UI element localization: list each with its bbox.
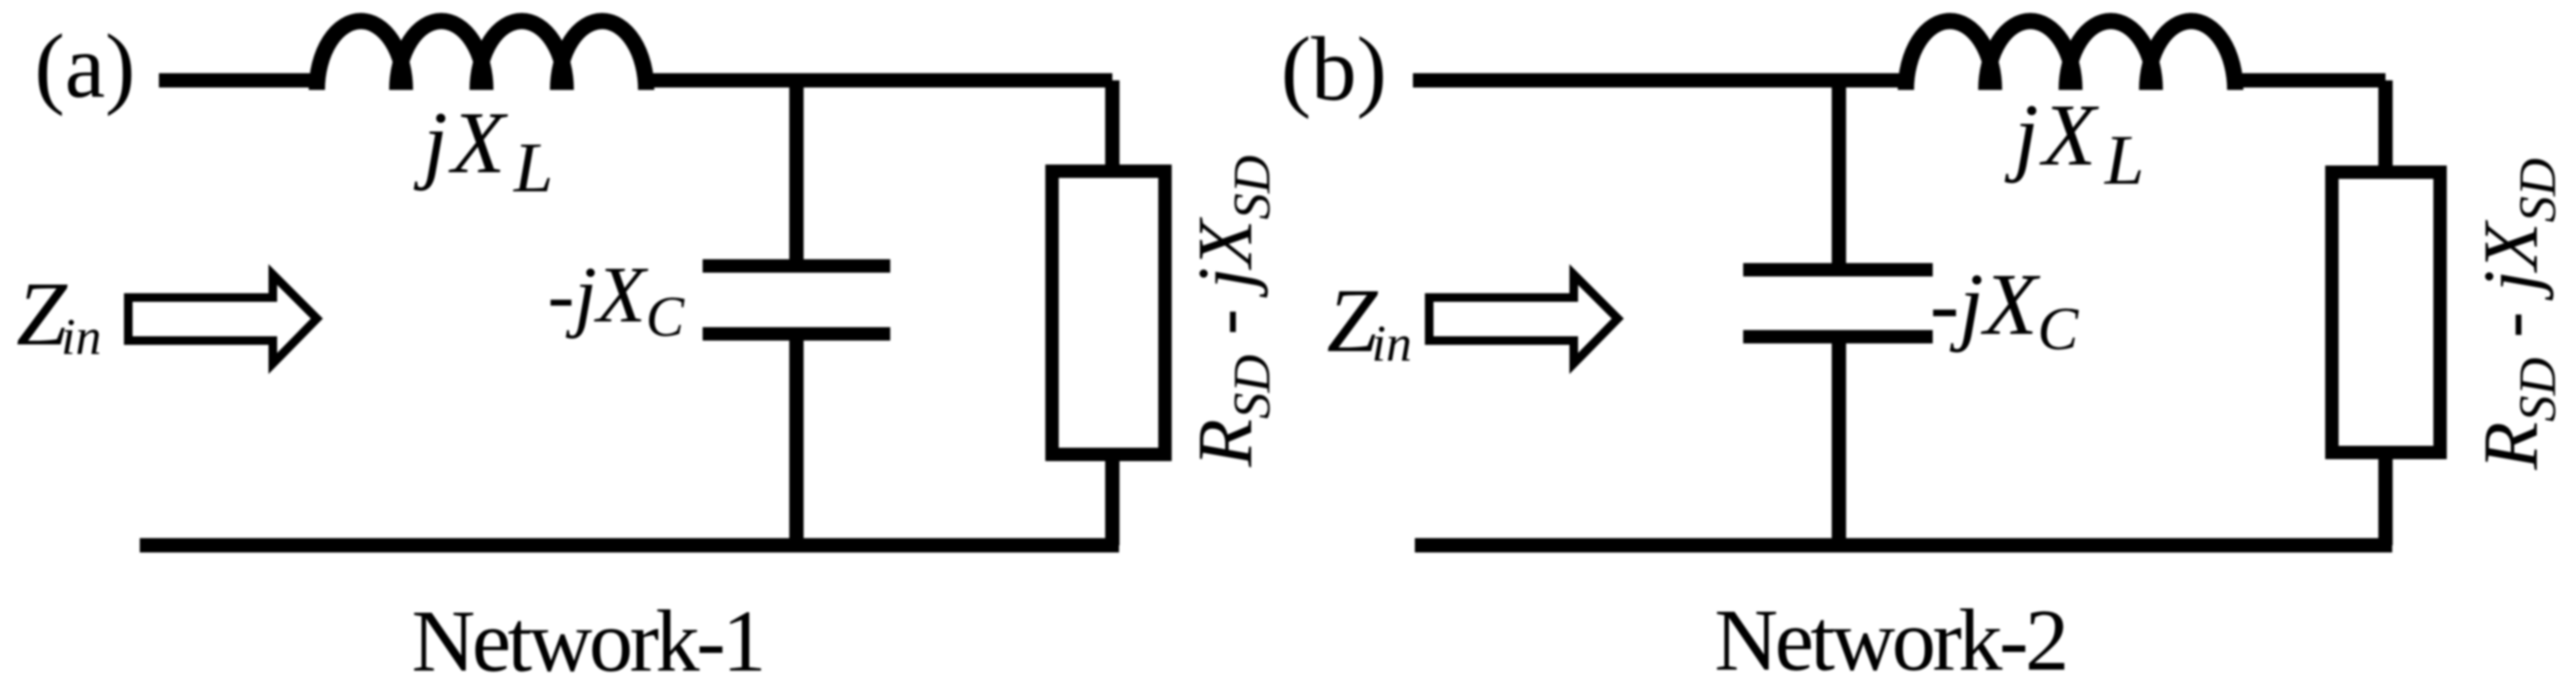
capacitor top plate network 2 xyxy=(1743,263,1933,276)
input arrow network 1 xyxy=(128,275,317,364)
capacitor bottom plate network 1 xyxy=(703,327,890,341)
top wire left, network 2 xyxy=(1413,74,1911,88)
svg-text:Network-1: Network-1 xyxy=(412,592,763,684)
wire right branch upper, network 2 xyxy=(2379,80,2393,169)
svg-text:Network-2: Network-2 xyxy=(1714,591,2066,684)
wire capacitor branch upper, network 2 xyxy=(1832,80,1847,264)
inductor jXL network 1 xyxy=(317,21,405,90)
wire capacitor branch lower, network 2 xyxy=(1832,337,1847,545)
capacitor bottom plate network 2 xyxy=(1743,330,1933,343)
top wire right, network 2 xyxy=(2230,74,2386,88)
wire right branch lower, network 2 xyxy=(2379,455,2393,545)
wire top-left of network 1 xyxy=(159,74,322,88)
svg-text:(a): (a) xyxy=(34,15,135,117)
capacitor top plate network 1 xyxy=(703,259,890,273)
bottom wire network 2 xyxy=(1415,539,2392,553)
resistor RSD network 2 xyxy=(2332,172,2440,452)
wire capacitor branch lower, network 1 xyxy=(790,334,804,545)
inductor jXL network 2 xyxy=(1906,21,1994,90)
wire right branch upper, network 1 xyxy=(1106,80,1120,168)
wire right branch lower, network 1 xyxy=(1106,457,1120,545)
resistor RSD network 1 xyxy=(1052,171,1165,454)
svg-text:(b): (b) xyxy=(1281,18,1387,120)
wire top-right of network 1 xyxy=(641,74,1112,88)
wire capacitor branch upper, network 1 xyxy=(790,80,804,260)
input arrow network 2 xyxy=(1429,275,1618,364)
bottom wire network 1 xyxy=(140,539,1119,553)
